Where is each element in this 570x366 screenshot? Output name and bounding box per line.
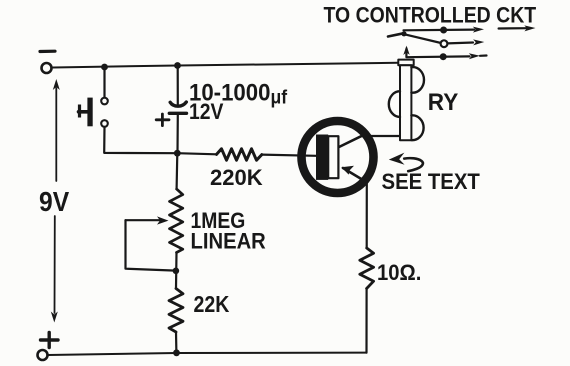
relay RY coil bbox=[398, 60, 413, 66]
contact row 2 open contact bbox=[441, 40, 448, 47]
label RY bbox=[428, 88, 459, 115]
wire emitter down bbox=[366, 184, 368, 249]
battery B1 9V bbox=[55, 88, 57, 181]
svg-text:SEE TEXT: SEE TEXT bbox=[382, 170, 480, 194]
resistor R1 220K bbox=[217, 149, 262, 160]
value label 220K bbox=[210, 165, 263, 190]
terminal negative bbox=[42, 63, 52, 73]
wire base branch left bbox=[178, 153, 217, 154]
emitter arrowhead bbox=[341, 166, 354, 175]
junction top rail / capacitor bbox=[174, 62, 181, 69]
relay contacts armature blade bbox=[388, 33, 404, 36]
wire pushbutton upper bbox=[103, 67, 105, 97]
potentiometer R2 1MEG bbox=[170, 189, 183, 253]
wire emitter diagonal bbox=[343, 168, 366, 182]
arrow to controlled ckt bbox=[499, 27, 528, 29]
resistor R4 10 ohm bbox=[360, 248, 374, 289]
junction top rail / pushbutton bbox=[101, 64, 108, 71]
note SEE TEXT arrow bbox=[404, 158, 423, 171]
svg-text:9V: 9V bbox=[39, 186, 70, 218]
junction capacitor / base branch bbox=[174, 150, 181, 157]
wire 22K to bottom rail bbox=[175, 332, 178, 353]
svg-text:12V: 12V bbox=[189, 100, 224, 124]
contact row 3 bbox=[406, 49, 469, 58]
pushbutton S1 bbox=[101, 98, 108, 105]
contact row 1 bbox=[404, 29, 475, 32]
capacitor C1 bbox=[170, 102, 186, 106]
value label C1 bbox=[189, 79, 288, 108]
svg-text:22K: 22K bbox=[194, 292, 230, 318]
wire pot to 22K bbox=[175, 253, 178, 289]
terminal positive bbox=[41, 338, 59, 341]
svg-text:TO CONTROLLED CKT: TO CONTROLLED CKT bbox=[324, 3, 537, 27]
value label 1MEG LINEAR bbox=[191, 209, 246, 233]
svg-text:10Ω.: 10Ω. bbox=[377, 261, 421, 285]
wire bottom rail bbox=[48, 353, 367, 355]
value label 10 ohm bbox=[377, 261, 421, 285]
junction bottom rail / 22K bbox=[173, 349, 180, 356]
wire pushbutton lower bbox=[104, 127, 177, 153]
wire base branch right bbox=[262, 155, 316, 156]
wire collector diagonal bbox=[339, 134, 366, 147]
label SEE TEXT bbox=[382, 170, 480, 194]
svg-text:RY: RY bbox=[428, 88, 459, 115]
svg-text:220K: 220K bbox=[210, 165, 263, 190]
value label 22K bbox=[194, 292, 230, 318]
label TO CONTROLLED CKT bbox=[324, 3, 537, 27]
transistor Q1 bbox=[302, 121, 374, 193]
wire 10 ohm to bottom rail bbox=[365, 289, 367, 353]
junction pot wiper / bottom bbox=[173, 268, 180, 275]
svg-text:LINEAR: LINEAR bbox=[191, 230, 266, 254]
wire capacitor bottom lead bbox=[176, 115, 179, 153]
wire capacitor top lead bbox=[177, 66, 179, 106]
wire pot branch upper bbox=[176, 153, 179, 189]
wire top rail bbox=[53, 63, 399, 68]
resistor R3 22K bbox=[169, 289, 183, 333]
wire collector to relay bbox=[371, 135, 400, 137]
